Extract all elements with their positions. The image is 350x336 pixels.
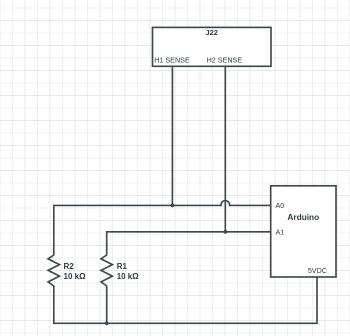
svg-text:R1: R1 <box>117 262 128 271</box>
svg-text:R2: R2 <box>64 262 75 271</box>
svg-text:H2 SENSE: H2 SENSE <box>207 56 243 65</box>
svg-text:J22: J22 <box>205 28 218 37</box>
svg-text:A1: A1 <box>276 227 285 236</box>
svg-text:10 kΩ: 10 kΩ <box>64 272 87 281</box>
svg-text:5VDC: 5VDC <box>308 266 327 275</box>
svg-text:10 kΩ: 10 kΩ <box>117 272 140 281</box>
svg-text:A0: A0 <box>276 201 285 210</box>
svg-text:Arduino: Arduino <box>287 212 319 222</box>
svg-text:H1 SENSE: H1 SENSE <box>154 56 190 65</box>
